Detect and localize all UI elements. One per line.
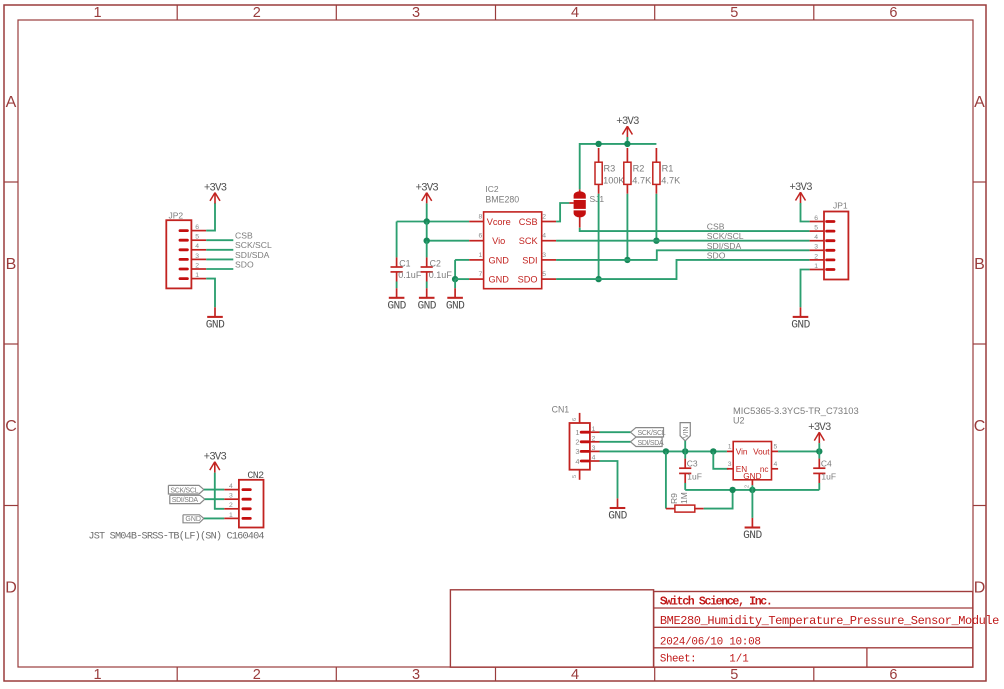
svg-text:2024/06/10 10:08: 2024/06/10 10:08 <box>660 636 761 648</box>
ground JP1 <box>791 307 810 331</box>
wire C1 top lead <box>396 222 398 258</box>
svg-text:JP2: JP2 <box>169 210 184 220</box>
svg-text:SDI/SDA: SDI/SDA <box>707 241 742 251</box>
ground CN1 <box>608 498 627 522</box>
IC IC2 BME280 <box>469 212 556 289</box>
svg-text:4: 4 <box>195 243 199 250</box>
wire IC2 pin1 GND wire <box>455 259 469 261</box>
svg-text:SCK/SCL: SCK/SCL <box>170 487 198 494</box>
pin C1 top stub <box>396 257 398 267</box>
resistor R3 <box>595 148 602 194</box>
wire CN1 pin2 SDI/SDA <box>600 441 631 443</box>
power +3V3 U2 out <box>808 422 831 443</box>
svg-text:IC2: IC2 <box>485 184 499 194</box>
ground IC2 GND <box>446 288 465 312</box>
svg-text:1: 1 <box>94 5 102 21</box>
svg-text:6: 6 <box>889 667 897 683</box>
node R3/SDO junction <box>595 276 601 282</box>
wire R9 to GND rail <box>704 490 733 509</box>
svg-text:MIC5365-3.3YC5-TR_C73103: MIC5365-3.3YC5-TR_C73103 <box>733 406 859 416</box>
svg-text:5: 5 <box>542 271 546 278</box>
wire JP2 pin6 to +3V3 <box>206 203 215 231</box>
svg-text:4: 4 <box>774 461 778 468</box>
wire JP1 pin1 to GND <box>801 270 810 308</box>
wire CN1 pin1 SCK/SCL <box>600 431 631 433</box>
net flag GND (CN2) <box>183 515 204 523</box>
node IC2 GND junction <box>452 276 458 282</box>
wire CSB row to JP1 <box>580 228 810 231</box>
svg-text:GND: GND <box>608 511 627 523</box>
resistor R2 <box>624 148 631 194</box>
net flag SDI/SDA (CN1) <box>631 437 665 447</box>
svg-text:2: 2 <box>229 502 233 509</box>
svg-text:GND: GND <box>791 320 810 332</box>
wire JP2 pin3 SDI/SDA <box>206 258 233 260</box>
svg-text:+3V3: +3V3 <box>204 452 227 464</box>
net flag SDI/SDA (CN2) <box>170 495 205 504</box>
power +3V3 IC2 <box>416 182 439 203</box>
svg-text:SCK/SCL: SCK/SCL <box>638 430 666 437</box>
svg-text:R9: R9 <box>669 493 679 504</box>
title block <box>450 590 999 667</box>
svg-text:1: 1 <box>814 263 818 270</box>
svg-text:GND: GND <box>488 275 509 285</box>
svg-text:Vout: Vout <box>753 447 770 456</box>
svg-text:5: 5 <box>774 444 778 451</box>
svg-text:SDI: SDI <box>522 255 537 265</box>
svg-text:3: 3 <box>412 5 420 21</box>
svg-text:4.7K: 4.7K <box>661 176 681 186</box>
wire Vout to +3V3 <box>778 450 819 452</box>
svg-text:5: 5 <box>195 234 199 241</box>
svg-text:3: 3 <box>412 667 420 683</box>
svg-text:2: 2 <box>575 438 579 447</box>
svg-text:1: 1 <box>195 272 199 279</box>
wire JP2 pin5 CSB <box>206 239 233 241</box>
connector CN2 <box>224 480 263 528</box>
connector CN1 <box>570 413 600 480</box>
wire SDO row to JP1 <box>556 260 810 279</box>
svg-text:R2: R2 <box>633 163 645 173</box>
svg-text:SDO: SDO <box>235 259 254 269</box>
svg-text:2: 2 <box>814 253 818 260</box>
svg-text:2: 2 <box>542 214 546 221</box>
wire CN2 pin2 +3V3 <box>215 473 224 509</box>
wire +3V3 stem <box>626 137 628 144</box>
svg-text:6: 6 <box>479 233 483 240</box>
wire C3 top lead <box>684 451 686 458</box>
wire SDI/SDA row to JP1 <box>556 250 810 260</box>
node rail/R2 <box>624 141 630 147</box>
svg-text:JP1: JP1 <box>833 200 848 210</box>
svg-text:5: 5 <box>572 475 578 478</box>
wire +3V3 column down to Vio <box>426 222 428 241</box>
wire C4 top lead <box>818 451 820 458</box>
svg-text:BME280: BME280 <box>485 195 519 205</box>
svg-text:R1: R1 <box>662 163 674 173</box>
wire Vio wire <box>427 240 470 242</box>
node VIN/C3 branch <box>682 448 688 454</box>
svg-text:CSB: CSB <box>519 217 538 227</box>
svg-text:4: 4 <box>571 667 579 683</box>
svg-text:Vin: Vin <box>736 447 748 456</box>
resistor R9 <box>666 505 704 512</box>
svg-text:1: 1 <box>575 428 579 437</box>
wire U2 GND pin lead <box>751 485 753 490</box>
svg-text:8: 8 <box>479 214 483 221</box>
pin C3 top stub <box>684 459 686 469</box>
capacitor C4 <box>813 468 825 473</box>
svg-text:B: B <box>974 256 985 273</box>
svg-text:1uF: 1uF <box>687 472 702 482</box>
svg-text:SDI/SDA: SDI/SDA <box>235 250 270 260</box>
ground C1 <box>387 288 406 312</box>
svg-text:SCK/SCL: SCK/SCL <box>235 240 272 250</box>
svg-text:1uF: 1uF <box>821 472 836 482</box>
svg-text:1: 1 <box>592 426 596 433</box>
svg-text:4: 4 <box>575 457 579 466</box>
svg-text:SCK/SCL: SCK/SCL <box>707 231 744 241</box>
svg-text:CSB: CSB <box>235 231 253 241</box>
svg-text:GND: GND <box>488 255 509 265</box>
svg-text:6: 6 <box>814 215 818 222</box>
svg-text:6: 6 <box>572 418 578 421</box>
connector JP2 <box>166 220 206 288</box>
svg-text:3: 3 <box>728 461 732 468</box>
wire SCK/SCL row to JP1 <box>556 240 810 242</box>
svg-text:CN2: CN2 <box>247 471 264 482</box>
svg-text:Switch Science, Inc.: Switch Science, Inc. <box>660 595 772 608</box>
wire C2 to GND <box>426 282 428 289</box>
svg-text:6: 6 <box>889 5 897 21</box>
svg-text:GND: GND <box>206 320 225 332</box>
node rail/R3 <box>595 141 601 147</box>
wire C4 bottom lead <box>818 483 820 490</box>
wire CSB to SJ1 <box>556 203 569 222</box>
wire U2 GND rail <box>685 489 819 491</box>
wire C1 to GND <box>396 282 398 289</box>
svg-text:C: C <box>974 418 986 435</box>
wire VIN flag stem <box>684 441 686 452</box>
wire C2 top lead <box>426 241 428 258</box>
svg-text:+3V3: +3V3 <box>204 182 227 194</box>
svg-text:1/1: 1/1 <box>729 654 748 666</box>
wire R1 to SCK row <box>655 194 657 241</box>
wire C3 bottom lead <box>684 483 686 490</box>
wire R2 to SDI row <box>626 194 628 260</box>
svg-text:5: 5 <box>730 5 738 21</box>
wire JP1 pin6 to +3V3 <box>801 203 810 222</box>
svg-text:0.1uF: 0.1uF <box>398 270 422 280</box>
svg-text:GND: GND <box>185 516 201 523</box>
svg-text:4: 4 <box>592 455 596 462</box>
wire CN2 pin3 SDI/SDA <box>205 498 224 500</box>
wire Vcore rail <box>397 221 470 223</box>
pin C2 bottom stub <box>426 272 428 282</box>
wire +3V3 down to Vcore rail <box>426 203 428 221</box>
svg-text:1M: 1M <box>679 492 689 504</box>
svg-text:3: 3 <box>814 244 818 251</box>
power +3V3 JP1 <box>789 182 812 203</box>
svg-text:3: 3 <box>195 253 199 260</box>
svg-text:+3V3: +3V3 <box>616 116 639 128</box>
svg-text:2: 2 <box>253 667 261 683</box>
resistor R1 <box>653 148 660 194</box>
net flag SCK/SCL (CN1) <box>631 428 666 438</box>
svg-text:1: 1 <box>229 512 233 519</box>
svg-text:D: D <box>5 579 17 596</box>
power +3V3 CN2 <box>204 452 227 473</box>
svg-text:JST SM04B-SRSS-TB(LF)(SN) C160: JST SM04B-SRSS-TB(LF)(SN) C160404 <box>88 531 264 543</box>
svg-text:SDI/SDA: SDI/SDA <box>638 440 665 447</box>
pin C4 bottom stub <box>818 473 820 483</box>
svg-text:GND: GND <box>417 300 436 312</box>
wire +3V3 stem U2 <box>818 443 820 451</box>
pin C3 bottom stub <box>684 473 686 483</box>
svg-text:GND: GND <box>743 530 762 542</box>
svg-text:Sheet:: Sheet: <box>660 654 696 666</box>
ground C2 <box>417 288 436 312</box>
svg-text:SDO: SDO <box>707 250 726 260</box>
svg-text:2: 2 <box>195 262 199 269</box>
svg-text:B: B <box>6 256 17 273</box>
node Vio/C2 junction <box>424 238 430 244</box>
svg-text:A: A <box>6 94 17 111</box>
svg-text:SCK: SCK <box>519 236 539 246</box>
svg-text:GND: GND <box>387 300 406 312</box>
wire JP2 pin1 to GND <box>206 279 215 308</box>
node R9/GND rail <box>729 487 735 493</box>
svg-text:+3V3: +3V3 <box>808 422 831 434</box>
svg-text:+3V3: +3V3 <box>789 182 812 194</box>
capacitor C3 <box>679 468 691 473</box>
wire GND column <box>454 260 456 279</box>
wire CN2 pin4 SCK/SCL <box>204 489 224 491</box>
svg-text:CN1: CN1 <box>552 405 570 415</box>
ground JP2 <box>206 307 225 331</box>
svg-text:GND: GND <box>743 472 761 481</box>
svg-text:C2: C2 <box>430 259 441 269</box>
svg-text:2: 2 <box>253 5 261 21</box>
svg-text:0.1uF: 0.1uF <box>429 270 453 280</box>
svg-text:4: 4 <box>814 234 818 241</box>
svg-text:1: 1 <box>94 667 102 683</box>
svg-text:5: 5 <box>814 225 818 232</box>
svg-text:7: 7 <box>479 271 483 278</box>
svg-text:5: 5 <box>730 667 738 683</box>
svg-text:U2: U2 <box>733 416 745 426</box>
connector JP1 <box>810 212 849 280</box>
svg-text:4.7K: 4.7K <box>632 176 652 186</box>
svg-text:3: 3 <box>592 445 596 452</box>
wire CN1 pin4 to GND <box>600 461 618 498</box>
svg-text:6: 6 <box>195 224 199 231</box>
svg-text:4: 4 <box>571 5 579 21</box>
wire CN1 pin3 VIN rail <box>600 450 727 452</box>
wire JP2 pin2 SDO <box>206 268 233 270</box>
wire SJ1 top to +3V3 rail <box>580 144 657 189</box>
svg-text:GND: GND <box>446 300 465 312</box>
node R1/SCK junction <box>653 238 659 244</box>
node U2 GND junction <box>749 487 755 493</box>
capacitor C1 <box>391 267 403 272</box>
ground U2 <box>743 518 762 542</box>
svg-text:3: 3 <box>542 252 546 259</box>
svg-text:4: 4 <box>542 233 546 240</box>
svg-text:R3: R3 <box>604 163 616 173</box>
node R9 branch <box>663 448 669 454</box>
wire CN2 pin1 GND <box>204 517 224 519</box>
IC U2 MIC5365 <box>727 442 778 486</box>
net flag SCK/SCL (CN2) <box>168 485 204 494</box>
svg-text:SDI/SDA: SDI/SDA <box>172 497 199 504</box>
capacitor C2 <box>421 267 433 272</box>
svg-text:+3V3: +3V3 <box>416 182 439 194</box>
pin C2 top stub <box>426 257 428 267</box>
wire IC2 pin7 GND wire <box>455 278 469 280</box>
svg-text:BME280_Humidity_Temperature_Pr: BME280_Humidity_Temperature_Pressure_Sen… <box>660 614 999 628</box>
node Vcore/+3V3 junction <box>424 218 430 224</box>
svg-text:Vio: Vio <box>492 236 505 246</box>
svg-text:C1: C1 <box>399 259 410 269</box>
svg-text:A: A <box>974 94 985 111</box>
svg-text:2: 2 <box>744 485 750 488</box>
svg-text:Vcore: Vcore <box>487 217 511 227</box>
svg-text:C3: C3 <box>687 459 698 469</box>
wire JP2 pin4 SCK/SCL <box>206 249 233 251</box>
svg-text:3: 3 <box>575 447 579 456</box>
wire rail to GND symbol <box>751 490 753 518</box>
pin C1 bottom stub <box>396 272 398 282</box>
svg-text:SJ1: SJ1 <box>590 194 605 204</box>
svg-text:CSB: CSB <box>707 222 725 232</box>
net flag VIN <box>680 423 690 441</box>
solder jumper SJ1 <box>569 189 585 227</box>
node EN branch <box>710 448 716 454</box>
node Vout/C4 junction <box>816 448 822 454</box>
svg-text:4: 4 <box>229 483 233 490</box>
svg-text:D: D <box>974 579 986 596</box>
pin C4 top stub <box>818 459 820 469</box>
svg-text:C: C <box>5 418 17 435</box>
svg-text:1: 1 <box>479 252 483 259</box>
svg-text:VIN: VIN <box>683 427 690 439</box>
wire down to GND <box>454 279 456 288</box>
svg-text:SDO: SDO <box>518 275 538 285</box>
svg-text:100K: 100K <box>603 176 625 186</box>
power +3V3 pullup rail <box>616 116 639 137</box>
power +3V3 JP2 <box>204 182 227 203</box>
node R2/SDI junction <box>624 257 630 263</box>
svg-text:2: 2 <box>592 435 596 442</box>
wire R9 left drop <box>665 451 667 508</box>
svg-text:3: 3 <box>229 493 233 500</box>
wire EN tie to VIN <box>713 451 728 468</box>
svg-text:C4: C4 <box>821 459 832 469</box>
wire R3 to SDO row <box>598 194 600 279</box>
svg-text:1: 1 <box>728 444 732 451</box>
